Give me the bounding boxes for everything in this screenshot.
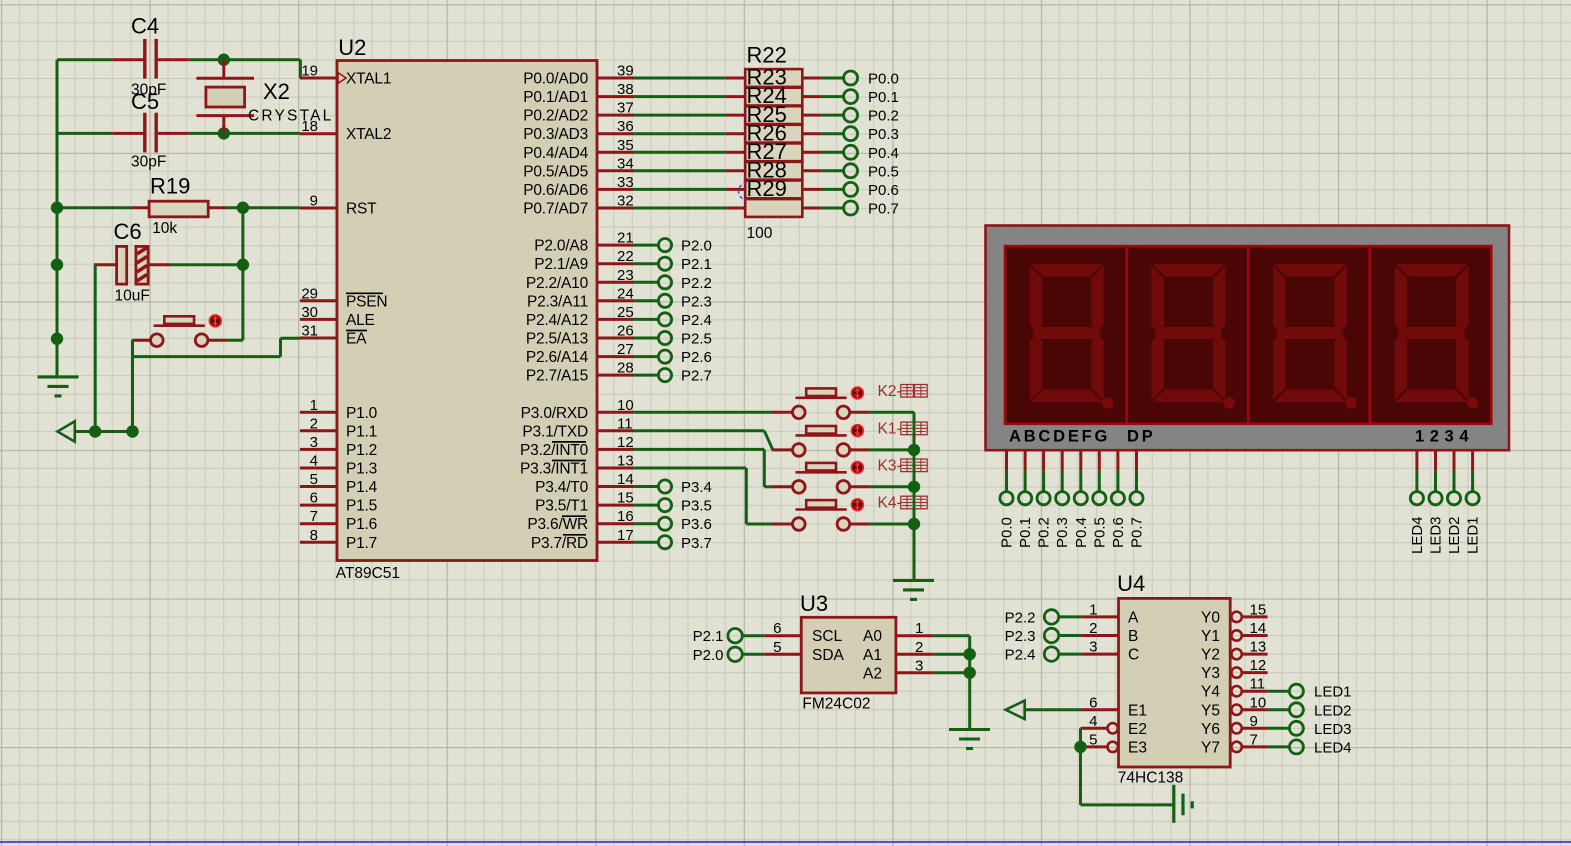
pin C (3): [1081, 639, 1139, 664]
svg-text:P0.0/AD0: P0.0/AD0: [523, 71, 588, 88]
pin SDA (5): [764, 639, 844, 664]
svg-text:33: 33: [617, 174, 634, 191]
pin A (1): [1081, 601, 1139, 626]
svg-text:29: 29: [301, 285, 318, 302]
svg-text:P0.2: P0.2: [1036, 517, 1053, 548]
display segment pin P0.7: [1129, 450, 1146, 548]
svg-text:P0.7/AD7: P0.7/AD7: [523, 201, 588, 218]
selection arc marker: [739, 183, 747, 200]
wire - A0 to ground rail: [933, 634, 970, 637]
node P0.7 terminal: [821, 201, 899, 218]
capacitor C4: [112, 14, 189, 99]
display digit pin LED2: [1446, 450, 1463, 554]
pin Y4 (11): [1201, 676, 1268, 701]
svg-text:K4-: K4-: [878, 495, 902, 512]
resistor R26: [725, 120, 821, 161]
pin Y7 (7): [1201, 731, 1268, 756]
wire - K4 stubs: [772, 523, 914, 526]
pin P1.5 (6): [300, 490, 377, 515]
svg-text:31: 31: [301, 323, 318, 340]
pin P0.6/AD6 (33): [523, 174, 634, 199]
svg-text:Y3: Y3: [1201, 665, 1220, 682]
button K1: [793, 426, 850, 456]
pin P1.6 (7): [300, 508, 377, 533]
wire - P3.2 to K3: [634, 449, 772, 486]
pin A2 (3): [863, 657, 933, 682]
display panel: [1005, 246, 1491, 424]
node P0.3 terminal: [821, 126, 899, 143]
ground - U4 (rotated): [1174, 785, 1192, 823]
pin Y1 (14): [1201, 620, 1268, 645]
svg-text:P2.0/A8: P2.0/A8: [534, 238, 588, 255]
svg-text:4: 4: [1089, 713, 1097, 730]
svg-text:P0.5/AD5: P0.5/AD5: [523, 163, 588, 180]
svg-text:P2.3/A11: P2.3/A11: [527, 293, 588, 310]
node P2.2 terminal: [1005, 609, 1082, 626]
svg-text:XTAL2: XTAL2: [346, 126, 391, 143]
svg-text:1: 1: [310, 397, 318, 414]
svg-text:P0.7: P0.7: [1129, 517, 1146, 548]
svg-text:E3: E3: [1128, 739, 1147, 756]
svg-text:LED4: LED4: [1314, 739, 1352, 756]
junction - rail K3: [908, 481, 920, 493]
svg-text:U2: U2: [338, 35, 366, 60]
label 1234: [1415, 428, 1474, 446]
svg-text:26: 26: [617, 323, 634, 340]
wire - RST node down to C6: [241, 208, 244, 265]
svg-text:P3.4/T0: P3.4/T0: [535, 479, 588, 496]
digit 3 segments: [1273, 264, 1357, 409]
junction - A2 rail: [964, 667, 976, 679]
svg-text:Y7: Y7: [1201, 739, 1220, 756]
svg-text:P3.7: P3.7: [681, 535, 712, 552]
pin P1.2 (3): [300, 434, 377, 459]
wire - P3.1 to K1 (diagonal): [634, 431, 773, 450]
svg-text:Y2: Y2: [1201, 647, 1220, 664]
digit 4 segments: [1395, 264, 1479, 409]
wire - E3 to ground: [1081, 747, 1174, 805]
svg-text:10uF: 10uF: [115, 287, 150, 304]
svg-text:P2.4/A12: P2.4/A12: [526, 312, 588, 329]
svg-text:14: 14: [1250, 620, 1267, 637]
pin P3.0/RXD (10): [521, 397, 634, 422]
svg-text:27: 27: [617, 341, 634, 358]
display segment pin P0.2: [1036, 450, 1053, 548]
svg-text:DP: DP: [1127, 428, 1156, 446]
svg-text:ABCDEFG: ABCDEFG: [1009, 428, 1110, 446]
svg-text:FM24C02: FM24C02: [802, 696, 870, 713]
junction - rail at C6 row: [51, 259, 63, 271]
pin P1.7 (8): [300, 527, 377, 552]
label K2: [878, 383, 928, 400]
ground - left rail: [38, 333, 79, 396]
pin EA (31): [300, 323, 367, 348]
svg-text:9: 9: [1250, 713, 1258, 730]
svg-text:2: 2: [310, 415, 318, 432]
svg-text:PSEN: PSEN: [346, 293, 387, 310]
svg-text:P2.7/A15: P2.7/A15: [526, 368, 588, 385]
wire - P3.0 to K2: [634, 411, 772, 414]
svg-text:P1.3: P1.3: [346, 461, 377, 478]
node P2.3 terminal: [1005, 628, 1082, 645]
svg-text:C6: C6: [114, 219, 142, 244]
svg-text:P2.4: P2.4: [681, 312, 712, 329]
wire - button common rail: [913, 412, 916, 580]
wire - C6 left down to power row: [94, 265, 97, 432]
power arrow - E1: [1006, 701, 1082, 719]
node LED3 terminal: [1268, 721, 1352, 738]
display digit pin LED3: [1428, 450, 1445, 554]
svg-text:1: 1: [915, 620, 923, 637]
svg-text:25: 25: [617, 304, 634, 321]
wire - C6 to RST node: [171, 263, 243, 266]
value label 100: [747, 225, 773, 242]
node LED2 terminal: [1268, 702, 1352, 719]
pin P0.3/AD3 (36): [523, 118, 634, 143]
svg-text:P0.3: P0.3: [1054, 517, 1071, 548]
svg-text:Y0: Y0: [1201, 609, 1220, 626]
pin P2.1/A9 (22): [534, 248, 634, 273]
resistor R28: [725, 158, 821, 199]
interactive marker - K3: [852, 462, 864, 474]
svg-text:K1-: K1-: [878, 420, 902, 437]
svg-text:P0.1/AD1: P0.1/AD1: [523, 89, 588, 106]
wire - pin 38 to R23: [634, 95, 725, 98]
junction - rail at R19: [51, 202, 63, 214]
svg-text:SCL: SCL: [812, 628, 843, 645]
svg-text:Y4: Y4: [1201, 684, 1220, 701]
svg-text:B: B: [1128, 628, 1138, 645]
pin P2.6/A14 (27): [526, 341, 634, 366]
pin P0.7/AD7 (32): [523, 193, 634, 218]
pin A1 (2): [863, 639, 933, 664]
svg-text:CRYSTAL: CRYSTAL: [248, 108, 333, 125]
svg-text:38: 38: [617, 81, 634, 98]
svg-text:P0.0: P0.0: [999, 517, 1016, 548]
svg-text:C4: C4: [131, 14, 159, 39]
op-amp U3 FM24C02 body: [800, 591, 896, 713]
display digit pin LED1: [1465, 450, 1482, 554]
svg-text:P0.6: P0.6: [1110, 517, 1127, 548]
svg-text:34: 34: [617, 155, 634, 172]
svg-text:ALE: ALE: [346, 312, 375, 329]
pin P1.1 (2): [300, 415, 377, 440]
pin E3 (5): [1084, 731, 1147, 756]
svg-text:19: 19: [301, 63, 318, 80]
wire - pin 34 to R27: [634, 169, 725, 172]
resistor R24: [725, 83, 821, 124]
svg-text:AT89C51: AT89C51: [336, 565, 400, 582]
pin ALE (30): [300, 304, 375, 329]
svg-text:P3.5/T1: P3.5/T1: [535, 498, 588, 515]
display segment pin P0.1: [1017, 450, 1034, 548]
svg-text:P0.0: P0.0: [868, 71, 899, 88]
svg-text:P2.7: P2.7: [681, 368, 712, 385]
node P2.6 terminal: [634, 349, 712, 366]
node P2.4 terminal: [634, 312, 712, 329]
svg-text:X2: X2: [263, 79, 290, 104]
pin P3.1/TXD (11): [522, 415, 634, 440]
svg-text:13: 13: [1250, 639, 1267, 656]
pin P0.2/AD2 (37): [523, 100, 634, 125]
node P2.4 terminal: [1005, 647, 1082, 664]
svg-text:P0.4: P0.4: [868, 145, 899, 162]
svg-text:P2.3: P2.3: [681, 293, 712, 310]
button K3: [793, 463, 850, 493]
svg-text:E1: E1: [1128, 702, 1147, 719]
pin Y0 (15): [1201, 601, 1268, 626]
wire - C5 to XTAL2: [189, 132, 300, 135]
junction - crystal top: [218, 54, 230, 66]
svg-text:P3.1/TXD: P3.1/TXD: [522, 423, 588, 440]
svg-text:U3: U3: [800, 591, 828, 616]
svg-text:U4: U4: [1117, 571, 1145, 596]
power arrow - bottom left: [58, 421, 133, 441]
svg-text:23: 23: [617, 267, 634, 284]
svg-text:P3.7/RD: P3.7/RD: [531, 535, 588, 552]
wire - EA pin 31 route: [133, 338, 300, 356]
svg-text:22: 22: [617, 248, 634, 265]
svg-text:4: 4: [310, 453, 318, 470]
svg-text:15: 15: [1250, 601, 1267, 618]
svg-text:3: 3: [1089, 639, 1097, 656]
pin P0.1/AD1 (38): [523, 81, 634, 106]
svg-text:2: 2: [915, 639, 923, 656]
svg-text:P0.4/AD4: P0.4/AD4: [523, 145, 588, 162]
svg-text:XTAL1: XTAL1: [346, 71, 391, 88]
wire - pin 37 to R24: [634, 114, 725, 117]
svg-text:2: 2: [1089, 620, 1097, 637]
svg-text:P3.5: P3.5: [681, 498, 712, 515]
wire - K1 stubs: [772, 448, 914, 451]
svg-text:LED1: LED1: [1314, 684, 1352, 701]
pin P0.5/AD5 (34): [523, 155, 634, 180]
svg-text:24: 24: [617, 285, 634, 302]
svg-text:P3.0/RXD: P3.0/RXD: [521, 405, 588, 422]
digit 1 segments: [1030, 264, 1114, 409]
wire - pin 33 to R28: [634, 188, 725, 191]
junction - rail K1: [908, 444, 920, 456]
pin P2.3/A11 (24): [527, 285, 634, 310]
button K2: [793, 388, 850, 418]
svg-text:10k: 10k: [152, 220, 177, 237]
node P2.1 terminal: [693, 628, 765, 645]
svg-text:P1.2: P1.2: [346, 442, 377, 459]
svg-text:9: 9: [310, 193, 318, 210]
pin P1.0 (1): [300, 397, 378, 422]
pin P3.4/T0 (14): [535, 471, 634, 496]
svg-text:P1.6: P1.6: [346, 516, 377, 533]
button K4: [793, 500, 850, 530]
pin Y5 (10): [1201, 694, 1268, 719]
svg-text:R22: R22: [747, 42, 787, 67]
svg-text:A0: A0: [863, 628, 882, 645]
pin PSEN (29): [300, 285, 388, 310]
svg-text:21: 21: [617, 230, 634, 247]
svg-text:SDA: SDA: [812, 647, 845, 664]
svg-text:K3-: K3-: [878, 457, 902, 474]
node P0.5 terminal: [821, 163, 899, 180]
svg-text:7: 7: [310, 508, 318, 525]
wire - U3 address ground rail: [968, 636, 971, 730]
svg-text:P0.3/AD3: P0.3/AD3: [523, 126, 588, 143]
svg-text:10: 10: [617, 397, 634, 414]
display segment pin P0.6: [1110, 450, 1127, 548]
svg-text:P2.1: P2.1: [681, 256, 712, 273]
svg-text:C5: C5: [131, 89, 159, 114]
svg-text:74HC138: 74HC138: [1118, 770, 1184, 787]
wire - C5 to rail: [57, 132, 112, 135]
svg-text:P0.5: P0.5: [868, 163, 899, 180]
pin P3.5/T1 (15): [535, 490, 634, 515]
label K1: [878, 420, 928, 437]
pin P0.0/AD0 (39): [523, 63, 634, 88]
op-amp U2 AT89C51 body: [336, 35, 597, 582]
node P2.7 terminal: [634, 368, 712, 385]
svg-text:36: 36: [617, 118, 634, 135]
ground - button rail: [893, 580, 934, 599]
svg-text:6: 6: [310, 490, 318, 507]
svg-text:LED2: LED2: [1314, 702, 1352, 719]
svg-text:5: 5: [773, 639, 781, 656]
svg-text:14: 14: [617, 471, 634, 488]
svg-text:12: 12: [617, 434, 634, 451]
resistor R29: [725, 176, 821, 217]
label K3: [878, 457, 928, 474]
wire - C4 to XTAL1: [189, 60, 301, 78]
node P0.4 terminal: [821, 145, 899, 162]
svg-text:C: C: [1128, 647, 1139, 664]
junction - E3: [1074, 741, 1086, 753]
svg-text:6: 6: [773, 620, 781, 637]
node P0.1 terminal: [821, 89, 899, 106]
svg-text:P2.6: P2.6: [681, 349, 712, 366]
display segment pin P0.0: [999, 450, 1016, 548]
svg-text:P2.0: P2.0: [693, 647, 724, 664]
svg-text:K2-: K2-: [878, 383, 902, 400]
junction - crystal bottom: [218, 127, 230, 139]
node P2.2 terminal: [634, 275, 712, 292]
svg-text:3: 3: [310, 434, 318, 451]
svg-text:LED2: LED2: [1446, 516, 1463, 554]
svg-text:1234: 1234: [1415, 428, 1474, 446]
svg-text:8: 8: [310, 527, 318, 544]
svg-text:P0.1: P0.1: [1017, 517, 1034, 548]
svg-text:10: 10: [1250, 694, 1267, 711]
node P2.3 terminal: [634, 293, 712, 310]
svg-text:P0.3: P0.3: [868, 126, 899, 143]
display digit pin LED4: [1409, 450, 1426, 554]
svg-text:P3.6: P3.6: [681, 516, 712, 533]
pin RST (9): [300, 193, 377, 218]
svg-text:30: 30: [301, 304, 318, 321]
node P0.2 terminal: [821, 108, 899, 125]
resistor R22: [725, 42, 821, 87]
node P3.5 terminal: [634, 498, 712, 515]
svg-text:LED3: LED3: [1428, 516, 1445, 554]
junction - power row at C6 branch: [89, 425, 101, 437]
pin P0.4/AD4 (35): [523, 137, 634, 162]
svg-text:16: 16: [617, 508, 634, 525]
svg-text:P3.3/INT1: P3.3/INT1: [520, 461, 588, 478]
wire - A1 to ground rail: [933, 653, 970, 656]
svg-text:13: 13: [617, 453, 634, 470]
svg-text:P1.1: P1.1: [346, 423, 377, 440]
wire - K3 stubs: [772, 485, 914, 488]
svg-text:P2.2: P2.2: [1005, 609, 1036, 626]
pin P3.3/INT1 (13): [520, 453, 634, 478]
display segment pin P0.5: [1091, 450, 1108, 548]
svg-text:P0.5: P0.5: [1091, 517, 1108, 548]
ground - U3 rail: [949, 730, 990, 749]
wire - left vertical rail: [56, 60, 59, 376]
label K4: [878, 495, 928, 512]
svg-text:P2.0: P2.0: [681, 238, 712, 255]
svg-text:39: 39: [617, 63, 634, 80]
display segment pin P0.4: [1073, 450, 1090, 548]
wire - E2 to E3 junction: [1079, 728, 1082, 747]
svg-text:LED4: LED4: [1409, 516, 1426, 554]
wire - pin 39 to R22: [634, 77, 725, 80]
svg-text:P0.2: P0.2: [868, 108, 899, 125]
resistor R19: [132, 173, 227, 237]
pin E2 (4): [1081, 713, 1147, 738]
pin P3.7/RD (17): [531, 527, 634, 552]
svg-text:P0.4: P0.4: [1073, 517, 1090, 548]
svg-text:P1.4: P1.4: [346, 479, 378, 496]
node P2.5 terminal: [634, 331, 712, 348]
wire - C4 to rail: [57, 58, 112, 61]
pin P2.4/A12 (25): [526, 304, 634, 329]
svg-text:P2.1/A9: P2.1/A9: [534, 256, 588, 273]
pin P2.0/A8 (21): [534, 230, 634, 255]
svg-text:1: 1: [1089, 601, 1097, 618]
wire - pin 36 to R25: [634, 132, 725, 135]
svg-text:P1.5: P1.5: [346, 498, 377, 515]
wire - A2 to ground rail: [933, 671, 970, 674]
capacitor C5: [112, 89, 189, 171]
label ABCDEFG DP: [1009, 428, 1156, 446]
svg-text:P1.7: P1.7: [346, 535, 377, 552]
sheet border line: [0, 841, 1571, 843]
svg-text:18: 18: [301, 118, 318, 135]
pin P2.7/A15 (28): [526, 360, 634, 385]
svg-text:P2.2/A10: P2.2/A10: [526, 275, 589, 292]
crystal X2: [196, 60, 333, 134]
display segment pin P0.3: [1054, 450, 1071, 548]
svg-text:11: 11: [1250, 676, 1266, 693]
svg-text:Y6: Y6: [1201, 721, 1220, 738]
svg-text:R19: R19: [150, 173, 190, 198]
svg-text:P2.4: P2.4: [1005, 647, 1036, 664]
node P3.7 terminal: [634, 535, 712, 552]
node P2.1 terminal: [634, 256, 712, 273]
wire - reset right contact to RST node: [208, 265, 243, 341]
svg-text:Y1: Y1: [1201, 628, 1220, 645]
node LED4 terminal: [1268, 739, 1352, 756]
svg-text:P3.6/WR: P3.6/WR: [527, 516, 588, 533]
svg-text:P0.6: P0.6: [868, 182, 899, 199]
svg-text:11: 11: [617, 415, 633, 432]
svg-text:LED1: LED1: [1465, 516, 1482, 554]
svg-text:A: A: [1128, 609, 1139, 626]
svg-text:RST: RST: [346, 201, 377, 218]
pin XTAL2 (18): [300, 118, 391, 143]
pin P2.5/A13 (26): [526, 323, 634, 348]
op-amp U4 74HC138 body: [1117, 571, 1230, 787]
node LED1 terminal: [1268, 684, 1352, 701]
svg-text:A2: A2: [863, 665, 882, 682]
